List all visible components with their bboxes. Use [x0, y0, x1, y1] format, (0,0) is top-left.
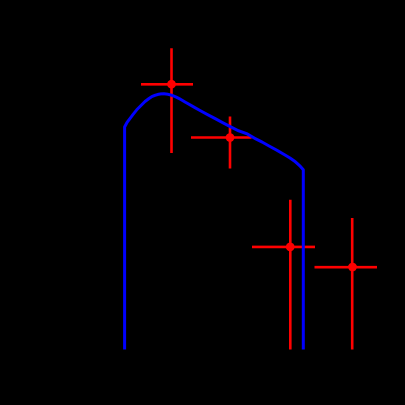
data point 1 error bars: [141, 48, 193, 153]
blue theory curve: [125, 94, 304, 350]
data point 4 error bars: [315, 218, 378, 350]
data point 4 marker: [348, 263, 357, 272]
data point 2 marker: [226, 133, 235, 142]
data point 2 error bars: [191, 117, 252, 169]
data point 1 marker: [167, 80, 176, 89]
data point 3 error bars: [252, 200, 315, 350]
data point 3 marker: [286, 243, 295, 252]
